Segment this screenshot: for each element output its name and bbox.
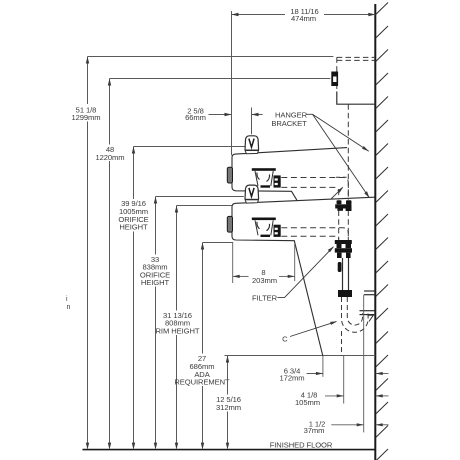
filter assembly xyxy=(335,240,352,272)
svg-text:REQUIREMENT: REQUIREMENT xyxy=(174,378,230,387)
svg-text:FINISHED FLOOR: FINISHED FLOOR xyxy=(270,441,333,450)
wall xyxy=(374,4,376,460)
trap arm into wall xyxy=(360,311,376,315)
extension line front face (top) xyxy=(231,11,233,155)
dimension 12 5/16 312mm xyxy=(225,356,376,443)
dimension 8 203mm xyxy=(233,243,295,283)
svg-text:BRACKET: BRACKET xyxy=(271,119,307,128)
svg-text:203mm: 203mm xyxy=(252,276,277,285)
svg-text:37mm: 37mm xyxy=(304,426,325,435)
hidden pipe continuing down (dashed) xyxy=(341,331,343,356)
svg-text:HEIGHT: HEIGHT xyxy=(141,278,170,287)
lower push button xyxy=(227,216,232,232)
svg-text:n: n xyxy=(67,304,71,311)
svg-text:66mm: 66mm xyxy=(185,113,206,122)
dimension 27 686mm ADA requirement xyxy=(203,243,234,443)
dimension 48 1220mm xyxy=(110,79,331,443)
dimension 39 9/16 1005mm orifice height xyxy=(134,147,245,443)
supply riser (hidden dashed) xyxy=(339,104,349,240)
svg-text:1220mm: 1220mm xyxy=(95,153,124,162)
lower fountain unit body xyxy=(232,197,375,356)
svg-text:105mm: 105mm xyxy=(295,398,320,407)
escutcheon tick (7 mark) xyxy=(368,315,374,321)
svg-text:1299mm: 1299mm xyxy=(71,113,100,122)
upper waste tee xyxy=(274,175,281,187)
svg-text:FILTER: FILTER xyxy=(252,293,278,302)
svg-text:474mm: 474mm xyxy=(291,14,316,23)
hanger bracket leaders xyxy=(307,114,370,199)
dimension 51 1/8 1299mm xyxy=(88,57,334,443)
in-wall union fitting xyxy=(331,72,338,87)
dimension 2 5/8 66mm xyxy=(209,108,263,135)
lower waste tee xyxy=(274,225,281,237)
upper basin drain strainer xyxy=(252,168,276,188)
hidden hanger bracket (dashed small) xyxy=(336,176,348,178)
upper hidden waste lines (dashed) xyxy=(281,178,348,200)
svg-text:RIM HEIGHT: RIM HEIGHT xyxy=(156,326,200,335)
wall hatching xyxy=(376,3,388,460)
dimension 33 838mm orifice height xyxy=(156,197,244,443)
dimension 18 11/16 474mm (top) xyxy=(232,14,376,16)
dimension 4 1/8 105mm xyxy=(325,356,389,404)
svg-text:i: i xyxy=(66,296,68,303)
in-wall waste outlet fitting xyxy=(335,200,351,211)
dimension 31 13/16 808mm rim height xyxy=(177,206,232,443)
upper push button xyxy=(227,167,232,183)
dimension 1 1/2 37mm xyxy=(331,295,388,433)
lower bubbler xyxy=(245,185,259,203)
in-wall top box: supply stub dashed double line xyxy=(337,57,375,91)
upper bubbler xyxy=(245,136,259,154)
svg-text:HEIGHT: HEIGHT xyxy=(119,223,148,232)
lower hidden waste lines (dashed) xyxy=(281,228,348,240)
P-trap (hidden dashed) xyxy=(342,297,369,332)
lower basin drain strainer xyxy=(252,218,276,238)
svg-text:312mm: 312mm xyxy=(216,403,241,412)
pipe coupling xyxy=(338,290,352,297)
dimension 6 3/4 172mm xyxy=(307,356,389,377)
in-wall top box bottom xyxy=(337,92,376,105)
waste stub above trap arm xyxy=(364,291,375,295)
finished floor line xyxy=(83,449,376,451)
svg-text:C: C xyxy=(282,335,288,344)
supply pipe solid below filter xyxy=(343,258,349,290)
upper fountain unit body xyxy=(232,148,347,201)
svg-text:172mm: 172mm xyxy=(280,374,305,383)
